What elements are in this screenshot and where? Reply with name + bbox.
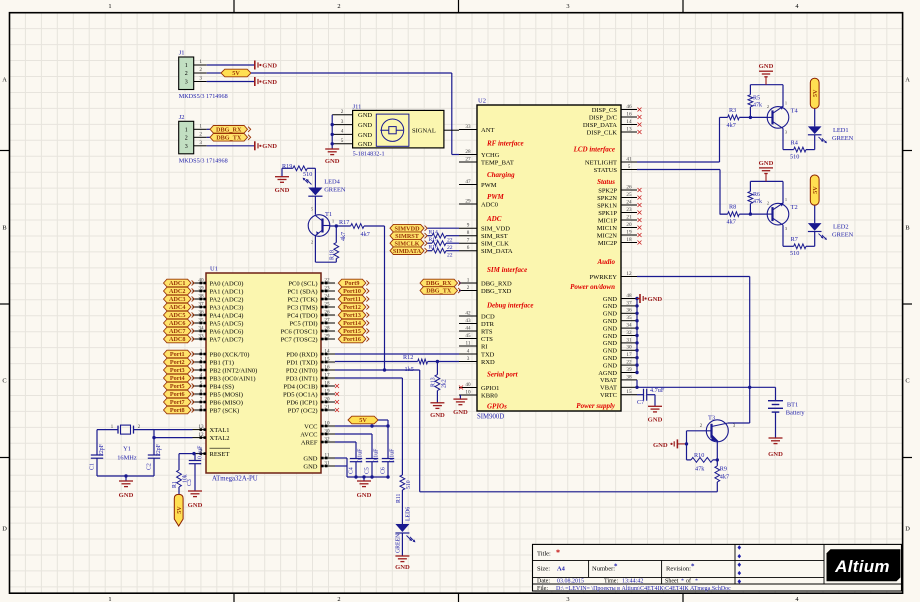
svg-text:SIMVDD: SIMVDD (394, 225, 420, 232)
svg-text:Debug interface: Debug interface (486, 301, 533, 309)
svg-text:GND: GND (603, 325, 617, 332)
svg-text:T1: T1 (325, 211, 332, 218)
svg-text:DISP_CS: DISP_CS (592, 107, 618, 114)
svg-text:Y1: Y1 (123, 446, 131, 453)
svg-text:PB6 (MISO): PB6 (MISO) (210, 399, 243, 406)
svg-text:GND: GND (603, 340, 617, 347)
svg-text:14: 14 (626, 119, 632, 125)
svg-text:0.1uF: 0.1uF (374, 448, 380, 462)
svg-text:PB7 (SCK): PB7 (SCK) (210, 407, 240, 414)
svg-text:SIM_CLK: SIM_CLK (481, 241, 509, 248)
svg-text:C1: C1 (90, 463, 96, 470)
svg-text:XTAL1: XTAL1 (210, 427, 230, 434)
svg-text:*: * (681, 579, 684, 585)
svg-text:SIM_DATA: SIM_DATA (481, 248, 513, 255)
svg-text:39: 39 (626, 367, 632, 373)
svg-text:MIC2N: MIC2N (597, 232, 618, 239)
svg-text:4k7: 4k7 (720, 474, 729, 481)
svg-text:C7: C7 (637, 399, 644, 406)
svg-text:19: 19 (626, 229, 632, 235)
svg-text:7: 7 (467, 238, 470, 244)
svg-text:Altium: Altium (834, 557, 890, 576)
svg-text:43: 43 (465, 318, 471, 324)
svg-text:26: 26 (626, 184, 632, 190)
svg-text:1: 1 (185, 128, 188, 134)
svg-text:PA4 (ADC4): PA4 (ADC4) (210, 312, 244, 319)
svg-text:PC2 (TCK): PC2 (TCK) (287, 296, 317, 303)
svg-text:R18: R18 (330, 250, 336, 260)
svg-text:9: 9 (467, 223, 470, 229)
svg-text:GND: GND (603, 333, 617, 340)
svg-text:GND: GND (603, 355, 617, 362)
svg-text:GND: GND (188, 502, 203, 509)
svg-text:Port16: Port16 (343, 336, 361, 343)
svg-text:38: 38 (626, 374, 632, 380)
svg-text:Port1: Port1 (170, 351, 185, 358)
svg-text:C2: C2 (147, 463, 153, 470)
svg-text:Sheet: Sheet (665, 579, 679, 585)
svg-text:J2: J2 (179, 114, 185, 121)
svg-text:2: 2 (185, 71, 188, 77)
svg-text:GND: GND (648, 296, 663, 303)
svg-text:PB4 (SS): PB4 (SS) (210, 383, 234, 390)
svg-text:PC4 (TDO): PC4 (TDO) (287, 312, 318, 319)
svg-text:44: 44 (465, 325, 471, 331)
svg-text:R10: R10 (694, 452, 704, 459)
svg-text:VRTC: VRTC (600, 392, 617, 399)
svg-text:1: 1 (108, 596, 111, 602)
svg-text:R8: R8 (729, 204, 736, 211)
svg-text:32: 32 (626, 330, 632, 336)
svg-text:PA3 (ADC3): PA3 (ADC3) (210, 304, 244, 311)
svg-text:5-1814832-1: 5-1814832-1 (353, 151, 385, 158)
svg-text:21: 21 (626, 214, 632, 220)
svg-text:NETLIGHT: NETLIGHT (585, 159, 617, 166)
svg-text:Title:: Title: (537, 551, 551, 558)
svg-text:PB5 (MOSI): PB5 (MOSI) (210, 391, 243, 398)
svg-text:5V: 5V (812, 186, 819, 194)
svg-text:Port11: Port11 (343, 296, 361, 303)
svg-text:RESET: RESET (210, 451, 230, 458)
svg-text:15: 15 (626, 389, 632, 395)
svg-text:SIM interface: SIM interface (487, 266, 527, 274)
svg-text:R15: R15 (429, 237, 439, 243)
svg-text:MIC2P: MIC2P (598, 240, 618, 247)
svg-text:R7: R7 (791, 236, 798, 243)
svg-text:A: A (2, 77, 7, 84)
svg-text:22pF: 22pF (156, 443, 162, 456)
svg-text:GND: GND (768, 451, 783, 458)
svg-text:Port3: Port3 (170, 367, 185, 374)
svg-text:R12: R12 (403, 354, 413, 361)
svg-text:C4: C4 (349, 467, 355, 474)
svg-text:GREEN: GREEN (396, 533, 402, 553)
svg-text:5V: 5V (812, 89, 819, 97)
svg-text:510: 510 (406, 480, 412, 489)
svg-text:AGND: AGND (598, 370, 617, 377)
svg-text:DBG_RXD: DBG_RXD (481, 280, 512, 287)
svg-text:4: 4 (467, 348, 470, 354)
svg-text:2: 2 (341, 109, 344, 115)
svg-text:3: 3 (341, 119, 344, 125)
svg-text:TEMP_BAT: TEMP_BAT (481, 159, 514, 166)
svg-text:1: 1 (199, 59, 202, 65)
svg-text:SIMDATA: SIMDATA (393, 248, 422, 255)
svg-text:Charging: Charging (487, 171, 515, 179)
svg-text:Port5: Port5 (170, 383, 185, 390)
svg-text:GND: GND (453, 409, 468, 416)
svg-text:DCD: DCD (481, 313, 495, 320)
svg-text:GND: GND (395, 564, 410, 571)
svg-text:23: 23 (626, 207, 632, 213)
svg-text:2k2: 2k2 (442, 379, 448, 388)
svg-text:10k: 10k (183, 474, 189, 483)
svg-text:1: 1 (785, 197, 787, 202)
svg-text:2: 2 (767, 104, 769, 109)
svg-text:GPIO1: GPIO1 (481, 385, 499, 392)
svg-text:6: 6 (467, 245, 470, 251)
svg-text:GND: GND (759, 63, 774, 70)
svg-text:TXD: TXD (481, 351, 495, 358)
svg-text:Revision:: Revision: (666, 566, 691, 573)
svg-text:27: 27 (465, 156, 471, 162)
svg-text:36: 36 (626, 308, 632, 314)
svg-text:DISP_CLK: DISP_CLK (587, 129, 618, 136)
svg-text:R14: R14 (429, 230, 439, 236)
svg-text:C: C (2, 378, 6, 385)
svg-text:33: 33 (465, 124, 471, 130)
svg-text:34: 34 (626, 323, 632, 329)
svg-text:0.1uF: 0.1uF (390, 448, 396, 462)
svg-text:GND: GND (303, 455, 317, 462)
svg-text:2: 2 (337, 596, 340, 602)
svg-text:ADC7: ADC7 (169, 328, 186, 335)
svg-text:5V: 5V (176, 506, 183, 514)
svg-text:10: 10 (465, 389, 471, 395)
svg-text:ADC4: ADC4 (169, 304, 186, 311)
svg-text:PC1 (SDA): PC1 (SDA) (287, 288, 317, 295)
svg-text:R1: R1 (172, 481, 178, 488)
svg-text:DBG_TXD: DBG_TXD (481, 288, 512, 295)
svg-text:41: 41 (626, 156, 632, 162)
svg-text:2: 2 (337, 3, 340, 10)
svg-text:22: 22 (447, 253, 453, 259)
svg-text:45: 45 (465, 333, 471, 339)
svg-text:DBG_RX: DBG_RX (216, 127, 242, 134)
svg-text:2: 2 (199, 132, 202, 138)
svg-text:1: 1 (108, 3, 111, 10)
svg-text:AREF: AREF (301, 439, 318, 446)
svg-text:2: 2 (767, 201, 769, 206)
svg-text:1: 1 (199, 124, 202, 130)
svg-text:of: of (686, 578, 691, 585)
svg-text:DISP_D/C: DISP_D/C (589, 114, 617, 121)
svg-text:13:44:42: 13:44:42 (622, 579, 643, 585)
svg-text:DTR: DTR (481, 321, 495, 328)
svg-text:C5: C5 (365, 467, 371, 474)
svg-text:PC6 (TOSC1): PC6 (TOSC1) (281, 328, 318, 335)
svg-text:28: 28 (465, 149, 471, 155)
svg-text:SPK1N: SPK1N (597, 202, 617, 209)
svg-text:Port15: Port15 (343, 328, 361, 335)
svg-text:R19: R19 (282, 163, 292, 170)
svg-text:48: 48 (626, 293, 632, 299)
svg-text:R11: R11 (396, 493, 402, 503)
svg-text:Port12: Port12 (343, 304, 361, 311)
svg-text:GND: GND (275, 187, 290, 194)
svg-text:25: 25 (626, 192, 632, 198)
svg-text:DBG_TX: DBG_TX (216, 135, 242, 142)
svg-text:R13: R13 (431, 377, 437, 387)
svg-text:VBAT: VBAT (600, 377, 617, 384)
svg-text:PC7 (TOSC2): PC7 (TOSC2) (281, 336, 318, 343)
svg-text:GND: GND (358, 122, 372, 129)
svg-text:46: 46 (626, 104, 632, 110)
svg-text:D: D (2, 526, 7, 533)
svg-text:40: 40 (465, 382, 471, 388)
svg-text:22pF: 22pF (99, 443, 105, 456)
svg-text:GND: GND (603, 318, 617, 325)
svg-text:16MHz: 16MHz (117, 455, 137, 462)
svg-text:LED4: LED4 (324, 179, 340, 186)
svg-text:3: 3 (566, 3, 569, 10)
svg-text:47k: 47k (695, 466, 705, 473)
svg-text:17: 17 (626, 352, 632, 358)
svg-text:Port8: Port8 (170, 407, 185, 414)
svg-text:D: D (905, 526, 910, 533)
svg-text:1: 1 (785, 100, 787, 105)
svg-text:SIM_RST: SIM_RST (481, 233, 508, 240)
svg-text:11: 11 (466, 340, 471, 346)
svg-text:Port6: Port6 (170, 391, 185, 398)
svg-text:MIC1P: MIC1P (598, 217, 618, 224)
svg-text:BT1: BT1 (787, 402, 798, 409)
svg-text:Status: Status (597, 178, 615, 186)
svg-text:ADC1: ADC1 (169, 280, 186, 287)
svg-text:3: 3 (566, 596, 569, 602)
svg-text:PC0 (SCL): PC0 (SCL) (288, 280, 317, 287)
svg-text:SPK2N: SPK2N (597, 195, 617, 202)
svg-text:R4: R4 (791, 139, 798, 146)
svg-text:U2: U2 (478, 98, 486, 105)
svg-text:MKDS5/3 1714968: MKDS5/3 1714968 (179, 93, 228, 100)
svg-text:MIC1N: MIC1N (597, 225, 618, 232)
svg-text:PA1 (ADC1): PA1 (ADC1) (210, 288, 244, 295)
svg-text:Port2: Port2 (170, 359, 185, 366)
svg-text:*: * (556, 548, 560, 557)
svg-text:GND: GND (603, 362, 617, 369)
svg-text:T2: T2 (791, 204, 798, 211)
svg-text:4k7: 4k7 (727, 122, 736, 129)
svg-text:3: 3 (467, 356, 470, 362)
svg-text:PWRKEY: PWRKEY (590, 274, 618, 281)
svg-text:C6: C6 (381, 467, 387, 474)
svg-text:GND: GND (262, 62, 277, 69)
svg-text:PA2 (ADC2): PA2 (ADC2) (210, 296, 244, 303)
svg-text:ADC3: ADC3 (169, 296, 186, 303)
svg-text:22: 22 (626, 360, 632, 366)
svg-text:Battery: Battery (786, 410, 806, 417)
svg-text:R3: R3 (729, 107, 736, 114)
svg-text:GREEN: GREEN (832, 232, 854, 239)
svg-text:GND: GND (603, 311, 617, 318)
svg-text:0.1uF: 0.1uF (358, 448, 364, 462)
svg-text:KBR0: KBR0 (481, 392, 498, 399)
svg-text:R9: R9 (720, 466, 727, 473)
svg-text:PWM: PWM (481, 182, 497, 189)
svg-text:GND: GND (648, 417, 663, 424)
svg-text:5: 5 (341, 138, 344, 144)
svg-text:XTAL2: XTAL2 (210, 435, 230, 442)
svg-text:PB1 (T1): PB1 (T1) (210, 359, 234, 366)
svg-text:STATUS: STATUS (594, 167, 618, 174)
svg-text:510: 510 (790, 250, 799, 257)
svg-text:ADC2: ADC2 (169, 288, 186, 295)
svg-text:Serial port: Serial port (487, 370, 519, 378)
svg-text:D:\ =LEVIN= \Проекты в Altium\: D:\ =LEVIN= \Проекты в Altium\C4ЕT4ІК\С4… (556, 586, 731, 592)
svg-text:PWM: PWM (487, 193, 505, 201)
svg-text:4.7uF: 4.7uF (650, 387, 665, 394)
svg-text:GREEN: GREEN (324, 187, 346, 194)
svg-text:*: * (695, 579, 698, 585)
svg-text:47k: 47k (753, 199, 762, 205)
svg-text:DBG_TX: DBG_TX (426, 288, 452, 295)
svg-text:12: 12 (626, 271, 632, 277)
svg-text:PB0 (XCK/T0): PB0 (XCK/T0) (210, 351, 250, 358)
svg-text:GND: GND (303, 463, 317, 470)
svg-text:18: 18 (626, 237, 632, 243)
svg-text:*: * (691, 563, 695, 571)
svg-text:GPIOs: GPIOs (487, 403, 507, 411)
svg-text:RI: RI (481, 343, 488, 350)
svg-text:J1: J1 (179, 50, 185, 57)
svg-text:35: 35 (626, 315, 632, 321)
svg-text:31: 31 (626, 337, 632, 343)
svg-text:B: B (905, 225, 909, 232)
svg-text:U1: U1 (210, 266, 218, 273)
svg-text:ATmega32A-PU: ATmega32A-PU (212, 476, 258, 483)
svg-text:3: 3 (185, 80, 188, 86)
svg-text:PA5 (ADC5): PA5 (ADC5) (210, 320, 244, 327)
svg-text:4k7: 4k7 (727, 219, 736, 226)
svg-text:C: C (905, 378, 909, 385)
svg-text:R5: R5 (753, 95, 760, 101)
svg-text:5V: 5V (359, 417, 367, 424)
svg-text:File:: File: (537, 586, 548, 592)
svg-text:DISP_DATA: DISP_DATA (583, 122, 617, 129)
svg-text:47k: 47k (753, 102, 762, 108)
svg-text:GND: GND (357, 492, 372, 499)
svg-text:GND: GND (653, 442, 668, 449)
svg-text:GND: GND (262, 79, 277, 86)
svg-text:LED1: LED1 (833, 127, 849, 134)
svg-text:RTS: RTS (481, 328, 493, 335)
svg-text:A4: A4 (557, 566, 566, 573)
svg-text:R17: R17 (339, 219, 349, 226)
svg-text:5V: 5V (232, 70, 240, 77)
svg-text:Power on/down: Power on/down (570, 283, 615, 291)
svg-text:ADC5: ADC5 (169, 312, 186, 319)
svg-text:AVCC: AVCC (300, 431, 317, 438)
svg-text:PD7 (OC2): PD7 (OC2) (288, 407, 318, 414)
svg-text:DBG_RX: DBG_RX (426, 280, 452, 287)
svg-text:R6: R6 (753, 192, 760, 198)
svg-text:20: 20 (626, 222, 632, 228)
svg-text:PA7 (ADC7): PA7 (ADC7) (210, 336, 244, 343)
svg-text:3: 3 (199, 76, 202, 82)
svg-text:Port10: Port10 (343, 288, 361, 295)
svg-text:PD6 (ICP1): PD6 (ICP1) (287, 399, 318, 406)
svg-text:MKDS5/3 1714968: MKDS5/3 1714968 (179, 157, 228, 164)
svg-text:LED2: LED2 (833, 224, 849, 231)
svg-text:R16: R16 (429, 245, 439, 251)
svg-text:4k7: 4k7 (341, 232, 347, 241)
svg-text:SIM_VDD: SIM_VDD (481, 226, 510, 233)
svg-text:PD2 (INT0): PD2 (INT0) (286, 367, 318, 374)
svg-text:PD5 (OC1A): PD5 (OC1A) (283, 391, 318, 398)
svg-text:GND: GND (358, 141, 372, 148)
svg-text:510: 510 (303, 171, 312, 178)
svg-text:37: 37 (626, 300, 632, 306)
svg-text:B: B (2, 225, 6, 232)
svg-text:PB3 (OC0/AIN1): PB3 (OC0/AIN1) (210, 375, 256, 382)
svg-text:Size:: Size: (537, 566, 550, 573)
svg-text:1: 1 (185, 63, 188, 69)
svg-text:GND: GND (603, 296, 617, 303)
svg-text:PC5 (TDI): PC5 (TDI) (290, 320, 318, 327)
svg-text:Time:: Time: (604, 579, 618, 585)
svg-text:1: 1 (467, 277, 470, 283)
svg-text:Port7: Port7 (170, 399, 185, 406)
svg-text:2: 2 (467, 285, 470, 291)
svg-text:Number:: Number: (592, 566, 615, 573)
svg-text:4k7: 4k7 (361, 231, 370, 238)
svg-text:Power supply: Power supply (576, 402, 616, 410)
svg-text:PD0 (RXD): PD0 (RXD) (286, 351, 317, 358)
svg-text:PB2 (INT2/AIN0): PB2 (INT2/AIN0) (210, 367, 258, 374)
svg-text:510: 510 (790, 153, 799, 160)
svg-text:Port13: Port13 (343, 312, 361, 319)
svg-text:8: 8 (467, 230, 470, 236)
svg-text:J11: J11 (353, 103, 362, 110)
svg-text:GND: GND (325, 158, 340, 165)
svg-text:GND: GND (603, 303, 617, 310)
svg-text:16: 16 (626, 111, 632, 117)
svg-text:A: A (905, 77, 910, 84)
svg-text:Port9: Port9 (345, 280, 360, 287)
svg-text:42: 42 (465, 310, 471, 316)
svg-text:GND: GND (358, 132, 372, 139)
svg-text:PD3 (INT1): PD3 (INT1) (286, 375, 318, 382)
svg-text:2: 2 (199, 67, 202, 73)
svg-text:SIM900D: SIM900D (477, 414, 504, 421)
svg-text:03.08.2015: 03.08.2015 (557, 579, 584, 585)
svg-text:4: 4 (341, 129, 344, 135)
svg-text:PA6 (ADC6): PA6 (ADC6) (210, 328, 244, 335)
svg-text:RF interface: RF interface (486, 140, 524, 148)
svg-text:ADC0: ADC0 (481, 201, 498, 208)
svg-text:29: 29 (465, 198, 471, 204)
svg-text:PD4 (OC1B): PD4 (OC1B) (283, 383, 317, 390)
svg-text:CTS: CTS (481, 336, 493, 343)
svg-text:LED6: LED6 (406, 507, 412, 521)
svg-text:GND: GND (430, 412, 445, 419)
svg-text:ADC8: ADC8 (169, 336, 186, 343)
svg-text:VBAT: VBAT (600, 385, 617, 392)
svg-text:3: 3 (185, 144, 188, 150)
svg-text:GND: GND (119, 492, 134, 499)
svg-text:Audio: Audio (596, 258, 615, 266)
